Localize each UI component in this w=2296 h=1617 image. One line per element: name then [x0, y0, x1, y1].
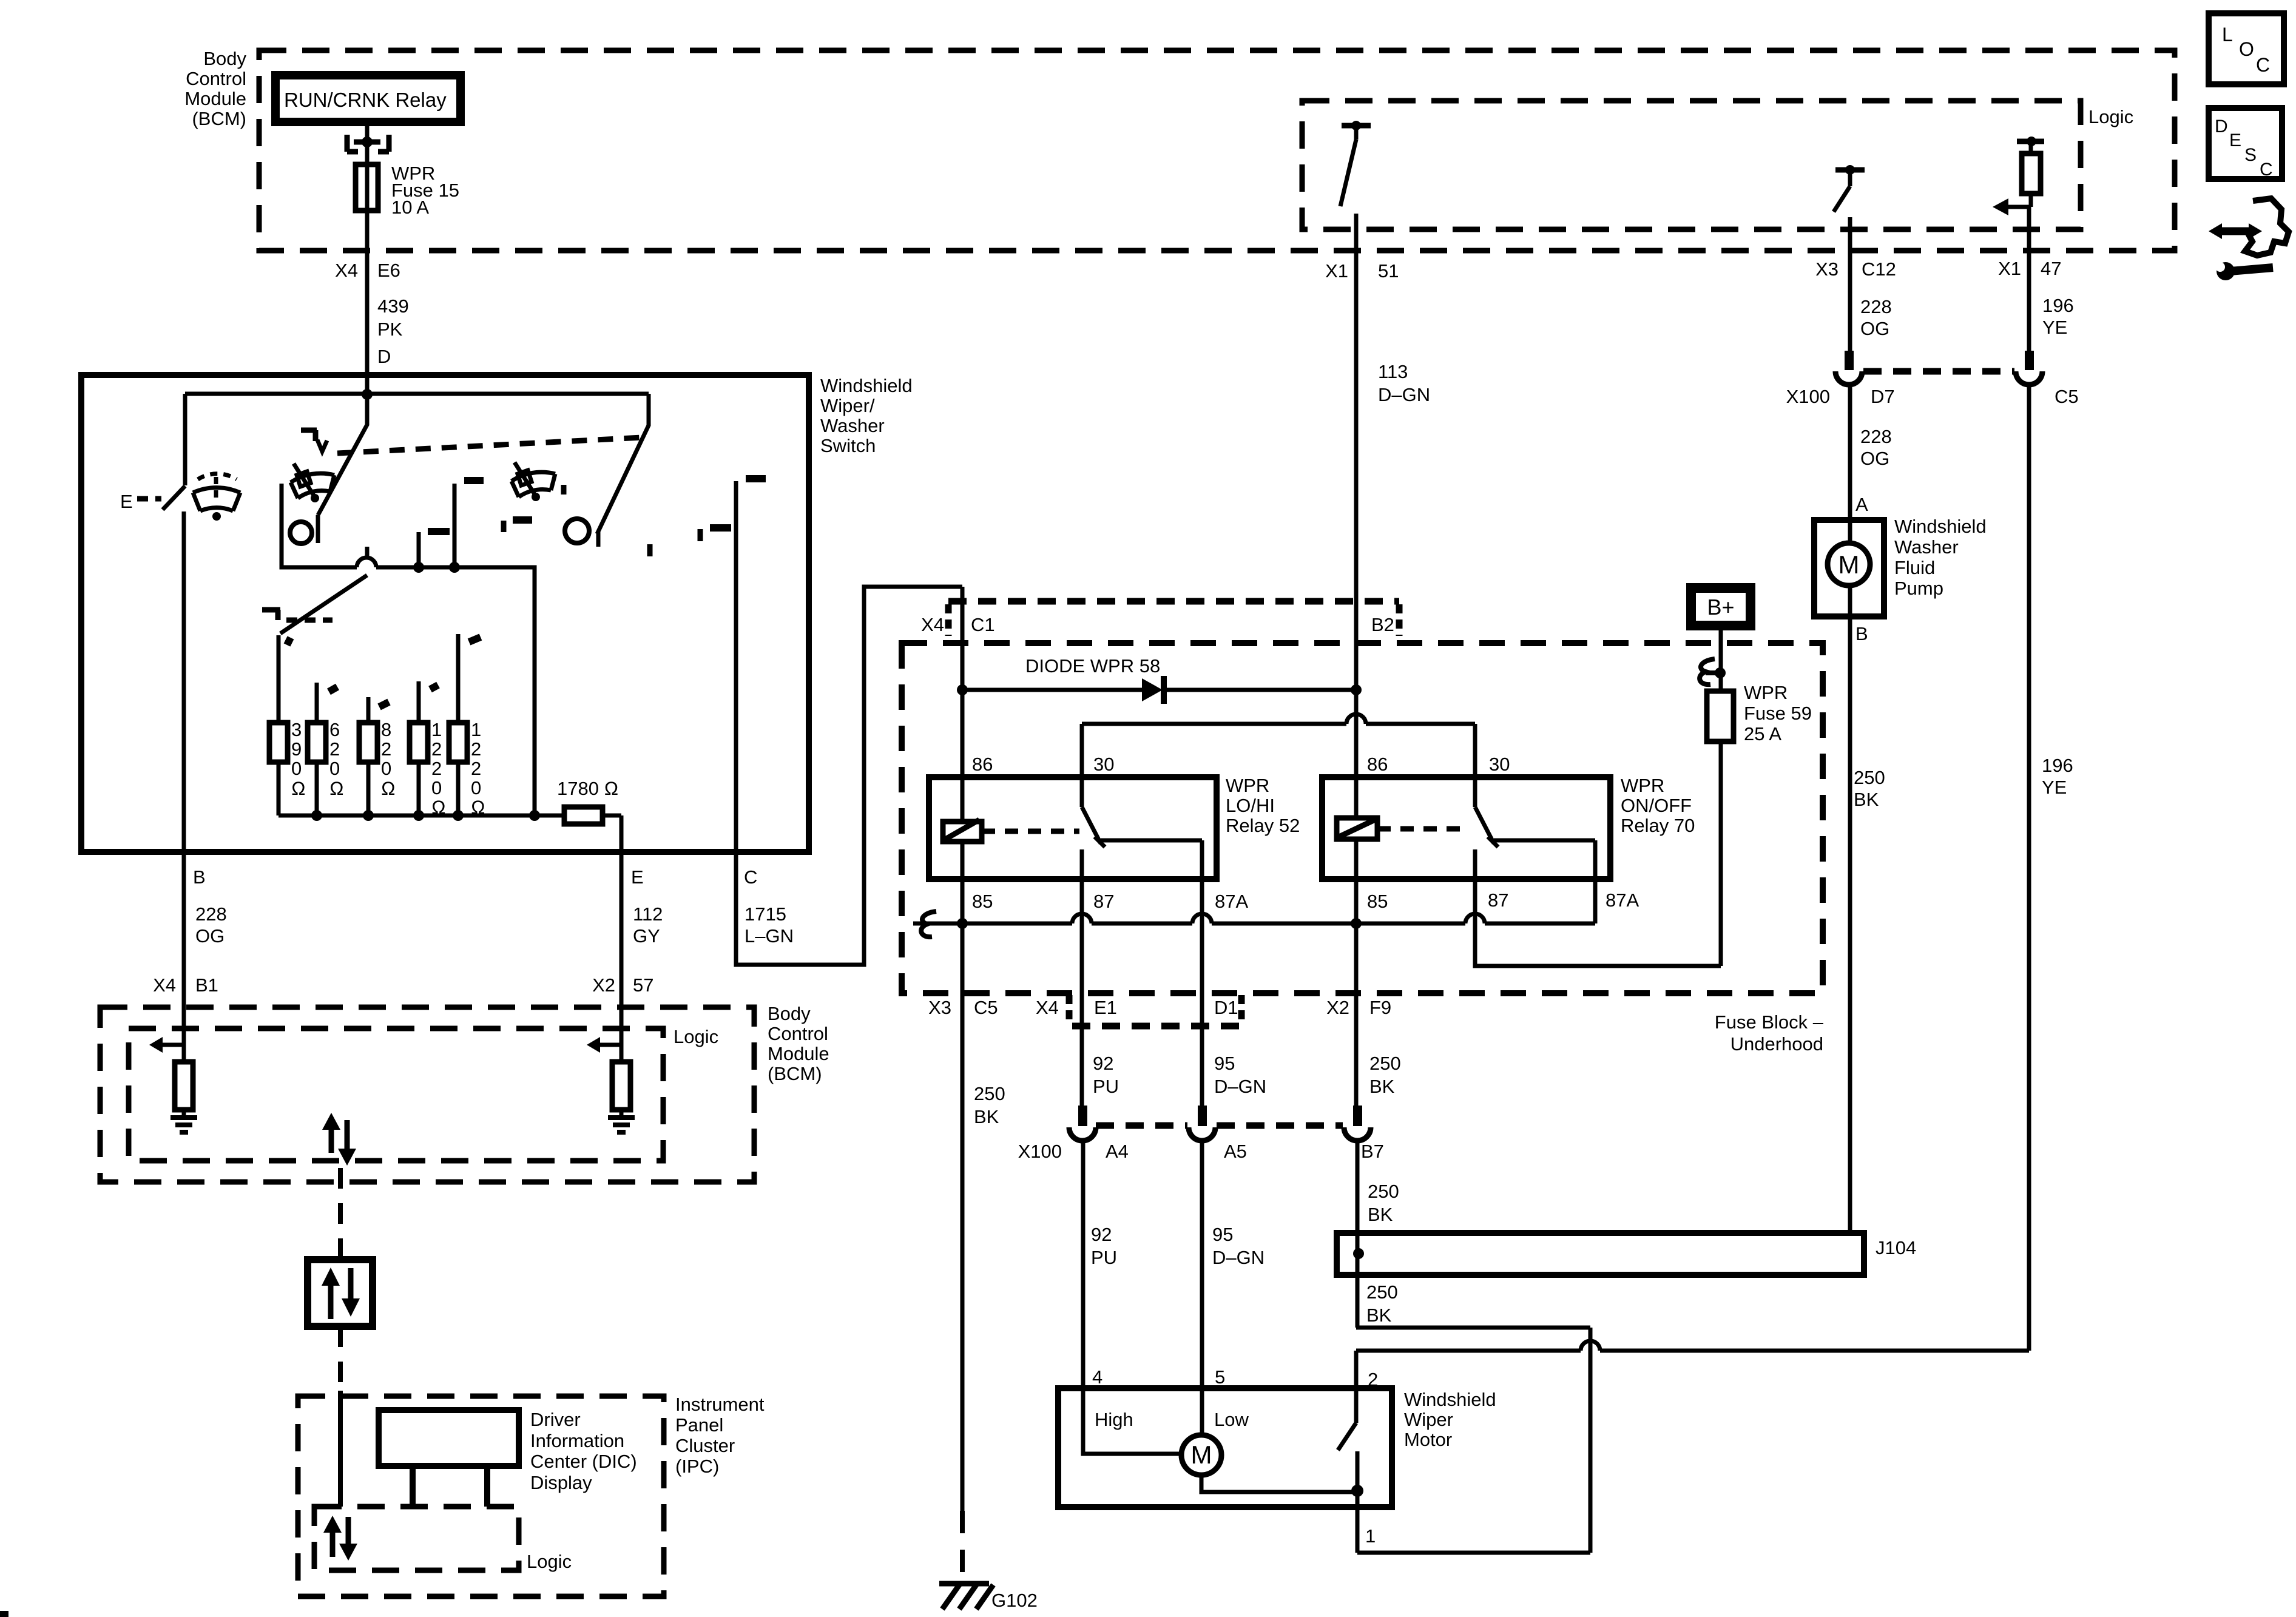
svg-text:D–GN: D–GN: [1214, 1076, 1266, 1097]
svg-text:F9: F9: [1369, 997, 1391, 1018]
svg-text:A4: A4: [1106, 1141, 1129, 1162]
svg-text:Logic: Logic: [674, 1026, 718, 1047]
svg-text:0: 0: [431, 777, 442, 798]
svg-text:3: 3: [291, 719, 302, 740]
svg-text:BK: BK: [974, 1106, 999, 1127]
svg-text:D–GN: D–GN: [1212, 1247, 1264, 1268]
svg-text:Logic: Logic: [527, 1551, 572, 1572]
svg-text:Information: Information: [530, 1430, 624, 1451]
svg-text:439: 439: [377, 295, 409, 317]
svg-text:92: 92: [1091, 1224, 1112, 1245]
svg-text:X1: X1: [1325, 260, 1348, 282]
svg-text:250: 250: [1368, 1181, 1399, 1202]
svg-text:Ω: Ω: [431, 797, 446, 818]
svg-text:S: S: [2244, 145, 2257, 165]
svg-text:Relay 52: Relay 52: [1226, 815, 1300, 836]
svg-text:OG: OG: [1860, 318, 1889, 339]
svg-text:E: E: [631, 866, 644, 888]
svg-text:112: 112: [633, 903, 663, 925]
svg-text:YE: YE: [2042, 777, 2067, 798]
svg-text:47: 47: [2041, 258, 2061, 279]
svg-text:85: 85: [972, 891, 993, 912]
svg-text:OG: OG: [195, 925, 225, 947]
svg-text:2: 2: [431, 758, 442, 779]
svg-text:WPR: WPR: [1744, 682, 1788, 703]
svg-text:Low: Low: [1214, 1409, 1249, 1430]
svg-text:ON/OFF: ON/OFF: [1621, 795, 1692, 816]
svg-text:30: 30: [1093, 754, 1114, 775]
svg-text:G102: G102: [991, 1590, 1038, 1611]
svg-text:PU: PU: [1093, 1076, 1119, 1097]
svg-text:WPR: WPR: [1226, 775, 1269, 796]
svg-text:2: 2: [1368, 1369, 1378, 1390]
svg-text:2: 2: [329, 738, 340, 760]
svg-text:Relay 70: Relay 70: [1621, 815, 1695, 836]
svg-text:C5: C5: [974, 997, 998, 1018]
svg-text:PU: PU: [1091, 1247, 1117, 1268]
svg-text:228: 228: [1860, 296, 1892, 317]
svg-text:E: E: [2229, 130, 2241, 150]
svg-text:D: D: [377, 346, 391, 367]
svg-text:196: 196: [2042, 295, 2074, 316]
svg-text:Windshield: Windshield: [1404, 1389, 1496, 1410]
svg-text:X2: X2: [592, 974, 615, 996]
svg-text:(BCM): (BCM): [768, 1063, 822, 1084]
svg-text:1780 Ω: 1780 Ω: [557, 778, 618, 799]
svg-text:C: C: [2256, 54, 2270, 76]
svg-text:25 A: 25 A: [1744, 723, 1781, 744]
svg-text:C12: C12: [1862, 258, 1896, 280]
svg-text:Windshield: Windshield: [820, 375, 913, 396]
svg-text:196: 196: [2042, 755, 2073, 776]
svg-text:Washer: Washer: [820, 415, 885, 436]
svg-text:Module: Module: [768, 1043, 829, 1064]
svg-text:228: 228: [195, 903, 227, 925]
svg-text:(BCM): (BCM): [192, 108, 246, 129]
svg-text:Fluid: Fluid: [1894, 557, 1935, 578]
svg-text:0: 0: [329, 758, 340, 779]
svg-text:(IPC): (IPC): [675, 1456, 719, 1477]
svg-text:Logic: Logic: [2088, 106, 2133, 127]
svg-text:Fuse Block –: Fuse Block –: [1715, 1011, 1824, 1033]
svg-text:X4: X4: [921, 614, 944, 635]
svg-text:X4: X4: [1036, 997, 1059, 1018]
svg-text:LO/HI: LO/HI: [1226, 795, 1275, 816]
svg-text:X4: X4: [153, 974, 176, 996]
svg-text:Center (DIC): Center (DIC): [530, 1451, 637, 1472]
svg-text:1: 1: [431, 719, 442, 740]
svg-text:C1: C1: [971, 614, 995, 635]
svg-text:X3: X3: [1815, 258, 1838, 280]
svg-text:D: D: [2215, 116, 2228, 137]
svg-text:C: C: [744, 866, 757, 888]
svg-text:C: C: [2260, 160, 2273, 180]
svg-text:RUN/CRNK Relay: RUN/CRNK Relay: [284, 89, 447, 111]
svg-text:X3: X3: [928, 997, 951, 1018]
svg-text:Underhood: Underhood: [1730, 1033, 1823, 1055]
svg-text:Pump: Pump: [1894, 578, 1943, 599]
svg-text:Module: Module: [184, 88, 246, 109]
svg-text:2: 2: [381, 738, 391, 760]
svg-text:E6: E6: [377, 260, 400, 281]
svg-text:A: A: [1855, 494, 1868, 515]
svg-text:E: E: [120, 491, 133, 512]
svg-text:B: B: [1855, 623, 1868, 644]
svg-text:Cluster: Cluster: [675, 1435, 735, 1456]
svg-text:C5: C5: [2055, 386, 2079, 407]
svg-text:D1: D1: [1214, 997, 1238, 1018]
svg-text:0: 0: [471, 777, 481, 798]
svg-text:250: 250: [1854, 767, 1885, 788]
svg-text:Fuse 59: Fuse 59: [1744, 703, 1812, 724]
svg-text:M: M: [1191, 1440, 1212, 1469]
svg-text:87A: 87A: [1606, 890, 1639, 911]
svg-text:M: M: [1838, 550, 1860, 579]
svg-text:DIODE WPR 58: DIODE WPR 58: [1025, 655, 1160, 677]
svg-text:X4: X4: [335, 260, 358, 281]
svg-text:87: 87: [1488, 890, 1508, 911]
svg-text:B+: B+: [1707, 595, 1734, 619]
svg-text:A5: A5: [1224, 1141, 1247, 1162]
svg-text:Ω: Ω: [471, 797, 485, 818]
svg-text:250: 250: [1369, 1053, 1401, 1074]
svg-text:30: 30: [1489, 754, 1510, 775]
svg-text:PK: PK: [377, 319, 403, 340]
svg-text:D–GN: D–GN: [1378, 384, 1430, 405]
svg-text:Washer: Washer: [1894, 536, 1959, 558]
svg-text:92: 92: [1093, 1053, 1113, 1074]
svg-text:5: 5: [1215, 1366, 1225, 1388]
svg-text:9: 9: [291, 738, 302, 760]
svg-text:Control: Control: [186, 68, 246, 89]
svg-text:95: 95: [1214, 1053, 1235, 1074]
svg-text:WPR: WPR: [1621, 775, 1664, 796]
svg-text:228: 228: [1860, 426, 1892, 447]
svg-text:86: 86: [1367, 754, 1388, 775]
svg-text:Body: Body: [203, 48, 246, 69]
svg-text:L–GN: L–GN: [745, 925, 794, 947]
svg-text:2: 2: [431, 738, 442, 760]
svg-text:D7: D7: [1871, 386, 1895, 407]
svg-text:X2: X2: [1326, 997, 1349, 1018]
svg-text:Driver: Driver: [530, 1409, 581, 1430]
svg-text:0: 0: [291, 758, 302, 779]
svg-text:1: 1: [1365, 1525, 1376, 1547]
svg-text:Body: Body: [768, 1003, 811, 1024]
svg-text:OG: OG: [1860, 448, 1889, 469]
svg-text:2: 2: [471, 738, 481, 760]
svg-text:86: 86: [972, 754, 993, 775]
svg-text:Ω: Ω: [291, 778, 306, 799]
svg-text:J104: J104: [1876, 1237, 1916, 1258]
svg-text:87: 87: [1093, 891, 1114, 912]
svg-text:High: High: [1095, 1409, 1133, 1430]
svg-text:6: 6: [329, 719, 340, 740]
svg-text:Windshield: Windshield: [1894, 516, 1987, 537]
svg-text:4: 4: [1092, 1366, 1102, 1388]
svg-text:51: 51: [1378, 260, 1399, 282]
svg-text:BK: BK: [1369, 1076, 1395, 1097]
svg-text:Motor: Motor: [1404, 1429, 1452, 1450]
svg-text:Panel: Panel: [675, 1414, 723, 1436]
svg-text:0: 0: [381, 758, 391, 779]
svg-text:GY: GY: [633, 925, 660, 947]
svg-text:Display: Display: [530, 1472, 592, 1493]
svg-text:BK: BK: [1368, 1204, 1393, 1225]
svg-text:95: 95: [1212, 1224, 1233, 1245]
svg-text:YE: YE: [2042, 317, 2067, 338]
svg-text:L: L: [2222, 24, 2233, 46]
svg-text:1715: 1715: [745, 903, 786, 925]
svg-text:8: 8: [381, 719, 391, 740]
svg-text:113: 113: [1378, 361, 1408, 382]
svg-text:57: 57: [633, 974, 653, 996]
svg-text:BK: BK: [1366, 1305, 1392, 1326]
svg-text:B: B: [193, 866, 206, 888]
svg-text:85: 85: [1367, 891, 1388, 912]
svg-text:2: 2: [471, 758, 481, 779]
svg-text:B1: B1: [195, 974, 218, 996]
svg-text:Ω: Ω: [329, 778, 344, 799]
svg-text:87A: 87A: [1215, 891, 1248, 912]
svg-text:B2: B2: [1371, 614, 1394, 635]
svg-text:250: 250: [974, 1083, 1005, 1104]
svg-text:250: 250: [1366, 1281, 1398, 1303]
svg-text:O: O: [2239, 38, 2254, 60]
svg-text:X100: X100: [1786, 386, 1830, 407]
svg-text:Wiper/: Wiper/: [820, 395, 875, 416]
svg-text:10 A: 10 A: [391, 197, 429, 218]
svg-text:X1: X1: [1998, 258, 2021, 279]
svg-text:Switch: Switch: [820, 435, 876, 456]
svg-text:E1: E1: [1094, 997, 1117, 1018]
svg-text:B7: B7: [1361, 1141, 1384, 1162]
svg-text:X100: X100: [1018, 1141, 1062, 1162]
svg-text:1: 1: [471, 719, 481, 740]
svg-text:Instrument: Instrument: [675, 1394, 765, 1415]
svg-text:BK: BK: [1854, 789, 1879, 810]
svg-text:Control: Control: [768, 1023, 828, 1044]
svg-text:Wiper: Wiper: [1404, 1409, 1453, 1430]
svg-text:Ω: Ω: [381, 778, 396, 799]
